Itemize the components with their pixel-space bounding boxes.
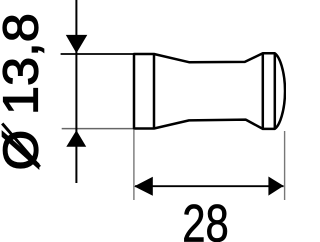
dimension line (horizontal, length 28) — [135, 185, 284, 187]
extension line (right, gray, from knob dome down to 28 dimension) — [284, 131, 286, 200]
svg-text:28: 28 — [182, 195, 229, 242]
arrowhead left (28 dimension) — [134, 177, 153, 196]
knob cap band right edge line — [274, 53, 277, 129]
arrowhead down (top of diameter dimension) — [66, 35, 88, 53]
diameter symbol slash overshoot — [2, 124, 40, 167]
extension line (top, from knob flange top edge to dimension line) — [61, 53, 140, 55]
extension line (left, gray, from knob left face down to 28 dimension) — [133, 130, 135, 200]
arrowhead right (28 dimension) — [268, 177, 283, 196]
knob flange right edge line — [153, 54, 156, 129]
extension line (bottom, gray, from knob flange bottom edge) — [62, 128, 134, 130]
dimension line (vertical, diameter 13,8) — [75, 0, 77, 183]
knob cap band left edge line — [262, 53, 265, 129]
arrowhead up (bottom of diameter dimension) — [66, 130, 86, 147]
knob outline (profile with waist and domed cap) — [134, 53, 285, 129]
